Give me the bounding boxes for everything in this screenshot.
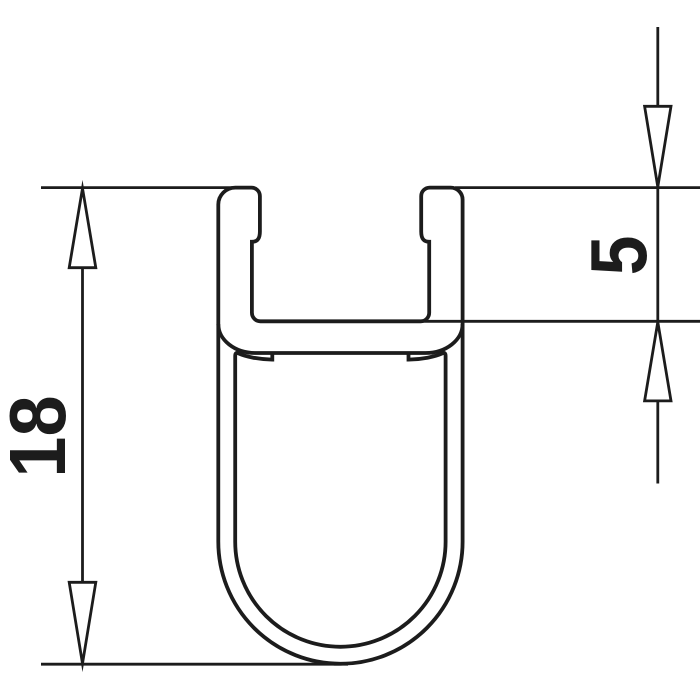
svg-text:18: 18	[0, 395, 83, 477]
left bottom arrow	[69, 582, 96, 663]
right top arrow	[645, 106, 671, 187]
profile outer silhouette	[218, 188, 462, 664]
right bottom arrow	[645, 322, 671, 401]
bubble inner wall	[235, 353, 445, 647]
left top arrow	[69, 188, 96, 267]
extension line mid (5 bottom)	[421, 320, 700, 323]
extension line bottom	[41, 663, 348, 666]
extension line top	[41, 186, 700, 189]
left dimension shaft	[81, 267, 84, 584]
svg-text:5: 5	[574, 236, 664, 276]
right dim shafts	[656, 27, 659, 484]
bubble cavity ceiling	[218, 324, 462, 353]
